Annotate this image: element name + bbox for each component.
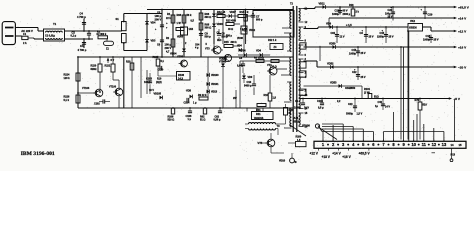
svg-text:4 μ: 4 μ <box>195 47 199 50</box>
svg-text:+14 V: +14 V <box>332 152 341 156</box>
svg-text:C15: C15 <box>352 48 357 52</box>
svg-text:14,3: 14,3 <box>178 76 184 80</box>
svg-text:22 k: 22 k <box>166 17 171 20</box>
svg-text:100 μ: 100 μ <box>155 14 162 18</box>
svg-text:VD4: VD4 <box>237 45 242 48</box>
svg-text:10: 10 <box>411 142 416 147</box>
svg-text:5,1 k: 5,1 k <box>64 99 70 102</box>
svg-text:C104: C104 <box>317 100 323 103</box>
svg-text:+63,5 V: +63,5 V <box>359 152 371 156</box>
svg-text:+63,5 V: +63,5 V <box>458 5 470 9</box>
svg-text:VD101: VD101 <box>211 83 219 86</box>
svg-text:200 V: 200 V <box>155 18 162 22</box>
svg-text:120 k: 120 k <box>64 77 71 80</box>
svg-text:6 V: 6 V <box>111 59 115 62</box>
svg-text:VD52: VD52 <box>327 61 334 65</box>
svg-text:VD02: VD02 <box>249 29 256 32</box>
svg-text:IBM 3196-001: IBM 3196-001 <box>21 151 55 157</box>
svg-text:VD8: VD8 <box>186 89 192 93</box>
svg-text:VD4: VD4 <box>256 49 262 53</box>
svg-text:R20: R20 <box>126 61 131 64</box>
svg-text:10 V: 10 V <box>304 107 309 110</box>
svg-text:C01: C01 <box>331 31 336 35</box>
svg-text:VT103: VT103 <box>82 87 90 90</box>
svg-text:5400 p: 5400 p <box>244 85 252 88</box>
svg-text:+13 V: +13 V <box>322 155 331 159</box>
svg-text:C4: C4 <box>80 44 84 48</box>
svg-text:R9 22 k: R9 22 k <box>198 94 207 97</box>
svg-text:VK2: VK2 <box>410 19 416 23</box>
svg-text:R12 1 k: R12 1 k <box>268 39 277 42</box>
svg-text:+12 V: +12 V <box>310 152 319 156</box>
svg-text:43 Ω: 43 Ω <box>228 28 233 31</box>
svg-text:56 k: 56 k <box>187 13 193 17</box>
svg-text:+14 V: +14 V <box>458 16 467 20</box>
svg-text:+16 V: +16 V <box>342 155 351 159</box>
svg-text:VT3: VT3 <box>205 48 210 51</box>
svg-text:1N4: 1N4 <box>189 28 194 31</box>
svg-text:VD103: VD103 <box>211 74 219 77</box>
svg-text:R11: R11 <box>256 112 261 116</box>
svg-text:51Ω: 51Ω <box>374 96 379 99</box>
svg-text:510: 510 <box>423 103 428 107</box>
svg-text:C10: C10 <box>247 80 252 84</box>
svg-text:R1: R1 <box>167 12 171 16</box>
svg-text:12 V: 12 V <box>340 36 345 39</box>
svg-text:1000μ: 1000μ <box>423 38 430 41</box>
svg-text:R8 120Ω: R8 120Ω <box>254 57 264 60</box>
svg-text:14 V: 14 V <box>385 106 390 109</box>
svg-text:0,1 μ: 0,1 μ <box>71 35 77 38</box>
svg-text:C1 0,01μ: C1 0,01μ <box>45 34 56 37</box>
svg-text:510 Ω: 510 Ω <box>168 119 175 122</box>
svg-text:VD04: VD04 <box>170 52 177 56</box>
svg-text:VD53: VD53 <box>330 80 337 84</box>
svg-text:2 A: 2 A <box>23 42 27 45</box>
svg-text:VT04: VT04 <box>240 49 247 53</box>
svg-text:25 V: 25 V <box>389 36 394 39</box>
svg-text:2300 μ: 2300 μ <box>343 13 351 16</box>
svg-text:(2Ω)(2Ω): (2Ω)(2Ω) <box>254 118 264 120</box>
svg-text:T1: T1 <box>53 22 57 26</box>
svg-text:25 V: 25 V <box>434 39 439 42</box>
svg-text:VD07: VD07 <box>230 10 237 14</box>
svg-text:12: 12 <box>432 142 437 147</box>
svg-text:4 700 p: 4 700 p <box>78 48 87 52</box>
svg-text:VD10: VD10 <box>279 160 286 163</box>
svg-text:1000μ: 1000μ <box>294 107 301 110</box>
svg-text:(1 W): (1 W) <box>364 91 370 94</box>
svg-text:200 V: 200 V <box>165 46 172 50</box>
svg-text:4 700 p: 4 700 p <box>77 15 86 19</box>
svg-text:1 μ: 1 μ <box>188 118 192 121</box>
svg-text:15: 15 <box>459 143 463 147</box>
svg-text:+12 V: +12 V <box>458 29 467 33</box>
svg-text:VD105: VD105 <box>154 93 162 96</box>
svg-text:C102: C102 <box>94 103 100 106</box>
svg-text:0,5 μ: 0,5 μ <box>318 107 324 110</box>
svg-text:VD4: VD4 <box>151 22 156 25</box>
svg-text:R16: R16 <box>349 4 354 7</box>
svg-text:R221: R221 <box>105 65 111 68</box>
svg-text:100 μ: 100 μ <box>144 81 151 84</box>
svg-text:25 V: 25 V <box>361 76 366 79</box>
svg-text:(2)(2): (2)(2) <box>156 82 162 84</box>
svg-text:2200μ: 2200μ <box>377 35 384 38</box>
svg-text:−20 V: −20 V <box>458 65 467 69</box>
svg-text:R15: R15 <box>224 40 229 44</box>
svg-text:1000μ: 1000μ <box>349 52 356 55</box>
svg-text:VT1: VT1 <box>267 63 272 67</box>
svg-text:R12 43: R12 43 <box>217 10 226 14</box>
svg-text:11: 11 <box>422 142 427 147</box>
svg-text:1 μ: 1 μ <box>193 102 197 105</box>
svg-text:25 V: 25 V <box>369 36 374 39</box>
svg-text:1μ: 1μ <box>375 105 378 108</box>
svg-text:0,68 μ: 0,68 μ <box>214 119 221 122</box>
svg-text:VD106: VD106 <box>302 124 310 128</box>
svg-text:500 p: 500 p <box>205 36 212 39</box>
svg-text:VT05: VT05 <box>177 55 184 59</box>
svg-text:≈ 1,5: ≈ 1,5 <box>346 23 352 27</box>
svg-text:25 V: 25 V <box>361 52 366 55</box>
svg-text:VT5: VT5 <box>258 141 263 145</box>
svg-text:VT100: VT100 <box>109 86 117 89</box>
svg-text:R136: R136 <box>178 73 185 77</box>
svg-text:VD03: VD03 <box>177 36 184 39</box>
svg-text:14: 14 <box>451 143 455 147</box>
svg-text:VD50: VD50 <box>329 41 336 45</box>
svg-text:300 Ω: 300 Ω <box>205 16 212 19</box>
svg-text:820Ω: 820Ω <box>91 68 97 71</box>
svg-text:51 Ω: 51 Ω <box>200 119 205 122</box>
svg-text:Φ: Φ <box>295 161 297 164</box>
svg-text:S1: S1 <box>116 17 120 21</box>
svg-text:C23: C23 <box>348 103 353 106</box>
svg-text:R105: R105 <box>153 56 159 59</box>
svg-text:600 p: 600 p <box>256 19 263 22</box>
svg-text:100 μ: 100 μ <box>165 43 172 47</box>
svg-text:13: 13 <box>442 142 447 147</box>
svg-text:5519: 5519 <box>294 119 300 123</box>
svg-text:500 p: 500 p <box>226 36 233 38</box>
svg-text:0,04μ: 0,04μ <box>237 65 244 68</box>
svg-text:VD11: VD11 <box>319 2 326 5</box>
svg-text:R10: R10 <box>264 94 269 97</box>
svg-text:VD3: VD3 <box>151 40 156 43</box>
svg-text:1000μ: 1000μ <box>332 13 339 16</box>
svg-text:VD0: VD0 <box>248 76 253 79</box>
svg-text:OSM850: OSM850 <box>345 86 356 90</box>
svg-text:R03: R03 <box>177 13 182 17</box>
svg-text:1,5 V: 1,5 V <box>357 113 363 116</box>
svg-text:R14: R14 <box>217 39 222 42</box>
svg-text:C4: C4 <box>80 12 84 16</box>
svg-text:A78: A78 <box>294 116 299 120</box>
svg-text:3300μ: 3300μ <box>346 113 353 116</box>
svg-text:VD9: VD9 <box>326 21 332 25</box>
svg-text:VD06: VD06 <box>217 23 224 26</box>
svg-text:R10: R10 <box>157 79 162 81</box>
svg-text:AC 220 V: AC 220 V <box>21 29 33 33</box>
svg-text:R70: R70 <box>415 98 420 102</box>
svg-text:300 Ω: 300 Ω <box>205 27 212 30</box>
svg-text:C110: C110 <box>158 69 164 72</box>
svg-text:+16 V: +16 V <box>458 45 467 49</box>
svg-text:C40: C40 <box>378 101 383 104</box>
svg-text:KREN: KREN <box>409 26 416 30</box>
